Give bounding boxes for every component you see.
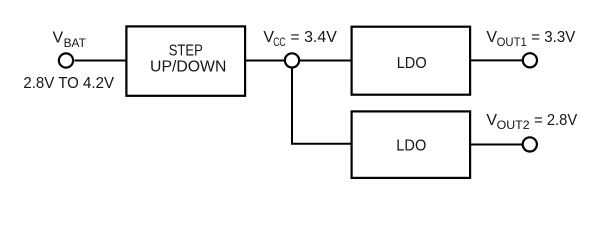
svg-text:CC: CC	[273, 37, 286, 49]
label VBAT	[53, 30, 87, 50]
terminal VOUT1	[523, 53, 537, 67]
svg-text:= 3.3V: = 3.3V	[531, 29, 575, 46]
terminal VBAT	[59, 53, 73, 67]
svg-text:= 2.8V: = 2.8V	[534, 112, 577, 129]
terminal VOUT2	[523, 137, 537, 151]
wire step-up/down to node VCC	[245, 60, 286, 62]
svg-text:OUT2: OUT2	[497, 118, 530, 132]
svg-text:LDO: LDO	[397, 55, 427, 72]
svg-text:UP/DOWN: UP/DOWN	[150, 59, 226, 76]
node VCC	[285, 53, 299, 67]
block STEP UP/DOWN	[126, 26, 245, 95]
label STEP UP/DOWN	[150, 43, 226, 76]
wire LDO1 to VOUT1 terminal	[471, 59, 523, 61]
label VOUT1 = 3.3V	[486, 29, 575, 49]
svg-text:V: V	[53, 30, 64, 47]
block LDO U2	[352, 111, 471, 177]
svg-text:OUT1: OUT1	[497, 35, 527, 49]
wire node VCC down and right to LDO2	[292, 68, 352, 144]
wire node VCC to LDO1	[299, 60, 352, 62]
label VCC = 3.4V	[263, 29, 337, 49]
svg-text:2.8V TO 4.2V: 2.8V TO 4.2V	[23, 75, 114, 92]
svg-text:= 3.4V: = 3.4V	[290, 29, 337, 46]
svg-text:LDO: LDO	[396, 137, 426, 154]
wire VBAT to step-up/down	[75, 60, 128, 62]
svg-text:BAT: BAT	[64, 36, 87, 50]
svg-text:STEP: STEP	[169, 43, 203, 60]
label VOUT2 = 2.8V	[486, 112, 577, 132]
block LDO U1	[352, 27, 471, 95]
wire LDO2 to VOUT2 terminal	[471, 144, 523, 146]
